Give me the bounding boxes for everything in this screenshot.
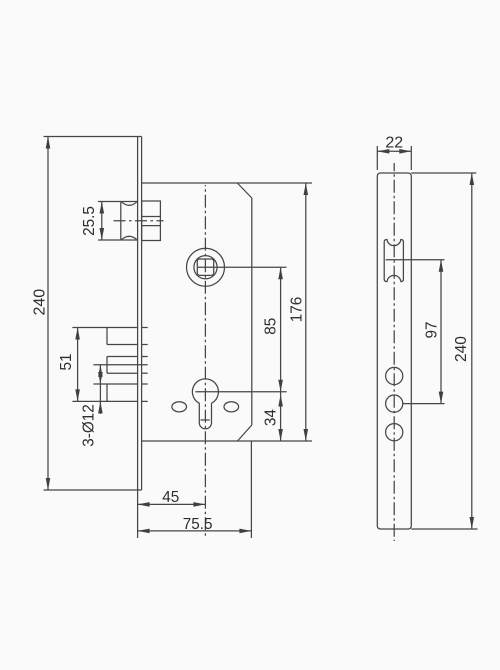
svg-text:85: 85	[263, 318, 280, 335]
svg-text:240: 240	[32, 289, 49, 316]
svg-text:176: 176	[289, 297, 306, 323]
svg-text:75.5: 75.5	[183, 516, 213, 533]
svg-text:25.5: 25.5	[81, 206, 98, 236]
svg-text:3-Ø12: 3-Ø12	[81, 404, 98, 447]
svg-text:45: 45	[162, 489, 179, 506]
svg-text:34: 34	[263, 409, 280, 427]
svg-text:22: 22	[385, 135, 403, 152]
svg-text:51: 51	[58, 353, 75, 370]
svg-text:97: 97	[423, 321, 440, 338]
svg-text:240: 240	[453, 336, 470, 362]
